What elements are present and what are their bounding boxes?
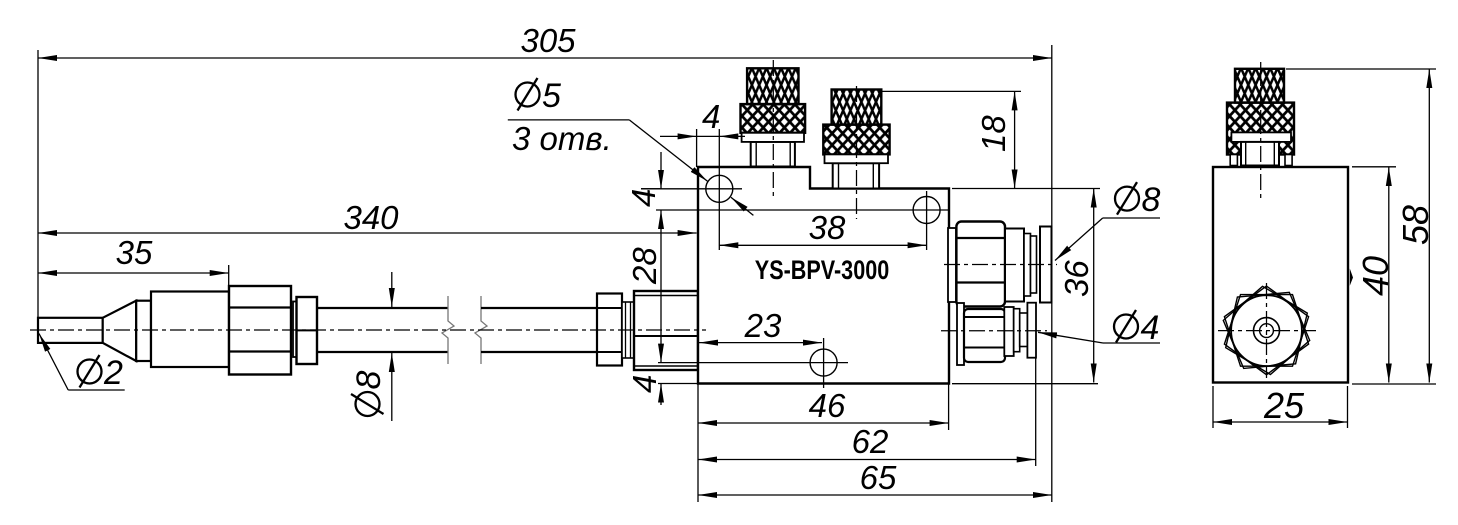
dim 4 left top — [625, 152, 662, 207]
right view edge sliver — [1350, 269, 1353, 286]
svg-text:YS-BPV-3000: YS-BPV-3000 — [755, 256, 889, 286]
svg-text:8: 8 — [350, 371, 388, 390]
dim 65 — [698, 459, 1052, 496]
svg-text:4: 4 — [702, 98, 720, 135]
dim 28 — [626, 210, 663, 363]
dim 23 — [699, 307, 822, 344]
dim 4 left bottom — [626, 375, 663, 405]
svg-text:40: 40 — [1355, 256, 1396, 296]
svg-text:2: 2 — [103, 354, 123, 392]
dim 36 — [1058, 189, 1095, 383]
knob 1 centerline — [772, 60, 774, 197]
ext 40 top — [1352, 166, 1396, 168]
svg-text:4: 4 — [626, 375, 663, 393]
knob 2 — [823, 90, 889, 189]
shaft hex D — [597, 294, 622, 366]
ext line x1052 — [1051, 45, 1053, 502]
ext line x1036 — [1035, 358, 1037, 466]
right view knob — [1227, 69, 1294, 166]
dim 46 — [698, 387, 949, 424]
shaft segment 2 — [481, 308, 597, 352]
lower fitting centerline — [941, 330, 1047, 332]
probe washer — [293, 302, 297, 358]
ext 18/36 y188.5 — [952, 188, 1100, 190]
svg-text:28: 28 — [626, 247, 663, 285]
front fitting star — [1223, 286, 1309, 375]
right view body — [1213, 167, 1348, 383]
svg-text:5: 5 — [542, 77, 561, 115]
dim 305 — [38, 22, 1052, 59]
ext 58 top — [1286, 68, 1436, 70]
left column ext lines — [641, 188, 660, 190]
probe axis centerline — [30, 329, 706, 331]
svg-text:18: 18 — [975, 115, 1012, 152]
hole 2 — [656, 191, 949, 250]
leader D2 — [39, 334, 125, 393]
valve body block — [698, 167, 949, 384]
svg-text:3 отв.: 3 отв. — [512, 120, 612, 157]
leader D8 right — [1055, 181, 1161, 260]
probe cylinder — [151, 292, 229, 368]
svg-text:4: 4 — [1141, 309, 1160, 347]
svg-text:8: 8 — [1142, 181, 1161, 219]
big nut F — [634, 291, 698, 370]
knob 1 — [741, 68, 806, 166]
svg-text:23: 23 — [744, 307, 782, 344]
dim 4 top — [660, 98, 745, 139]
front fitting circles — [1231, 295, 1302, 366]
svg-text:62: 62 — [852, 423, 889, 460]
svg-text:38: 38 — [809, 209, 846, 246]
upper fitting centerline — [944, 264, 1057, 266]
svg-text:340: 340 — [343, 199, 399, 236]
leader D4 right — [1038, 309, 1160, 347]
ext bottom right view — [1352, 383, 1436, 385]
ext line x229 — [228, 265, 230, 286]
probe ring — [136, 301, 151, 361]
svg-text:305: 305 — [520, 22, 576, 59]
dim 35 — [38, 234, 229, 273]
upper fitting (D8) — [948, 222, 1052, 307]
svg-text:46: 46 — [809, 387, 846, 424]
front fitting crosshair — [1218, 283, 1316, 378]
dim 340 — [38, 199, 697, 236]
ext line x697 above block — [696, 129, 698, 167]
svg-text:65: 65 — [860, 459, 897, 496]
hole 1 — [641, 129, 742, 250]
svg-text:4: 4 — [625, 189, 662, 207]
dim 25 — [1213, 385, 1348, 428]
dim 18 — [882, 91, 1021, 188]
ext y383.5 right of block — [952, 383, 1098, 385]
ext line left x38 — [37, 50, 39, 317]
ext line x698 below block — [697, 384, 699, 503]
right knob centerline — [1260, 62, 1262, 198]
svg-text:25: 25 — [1263, 385, 1305, 426]
shaft segment 1 — [317, 308, 448, 352]
svg-text:58: 58 — [1395, 205, 1436, 245]
knob 2 centerline — [856, 86, 858, 219]
break line right — [475, 296, 487, 364]
ext line x949 below block — [948, 384, 950, 431]
lower fitting (D4) — [957, 303, 1036, 365]
svg-text:35: 35 — [116, 234, 153, 271]
dim 38 — [719, 209, 926, 246]
collar E — [622, 302, 634, 358]
probe tip tube — [38, 318, 103, 343]
probe hex nut B — [229, 286, 291, 375]
dim 58 — [1395, 69, 1436, 383]
dim D8 shaft — [350, 272, 392, 421]
break line left — [442, 296, 454, 364]
probe nut C — [297, 297, 318, 364]
dim 40 — [1355, 167, 1396, 383]
svg-text:36: 36 — [1058, 260, 1095, 297]
leader D5 3 holes — [508, 77, 754, 215]
hole 3 — [658, 338, 848, 388]
probe cone — [103, 301, 137, 361]
dim 62 — [698, 423, 1036, 460]
